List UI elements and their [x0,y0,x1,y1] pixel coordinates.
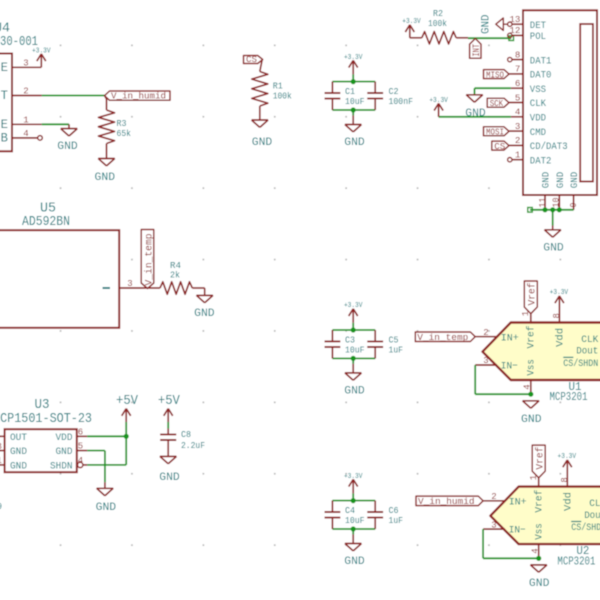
svg-text:2: 2 [483,328,488,338]
svg-text:CMD: CMD [530,127,546,139]
svg-text:9: 9 [569,203,579,208]
svg-text:CS: CS [246,54,257,65]
svg-text:Vss: Vss [526,359,538,376]
svg-text:MCP3201: MCP3201 [557,555,595,568]
svg-text:3: 3 [0,442,2,452]
svg-text:C8: C8 [181,429,191,440]
svg-text:100k: 100k [273,90,292,101]
svg-text:8: 8 [552,313,562,318]
svg-text:+3.3V: +3.3V [550,289,569,297]
svg-text:GND: GND [570,172,581,189]
svg-text:IN+: IN+ [501,332,519,344]
svg-text:OUT: OUT [10,433,27,444]
svg-text:Dout: Dout [584,510,600,522]
svg-text:U3: U3 [35,398,50,413]
svg-text:+3.3V: +3.3V [402,18,421,26]
svg-text:+3.3V: +3.3V [558,453,577,461]
svg-text:4: 4 [531,548,541,553]
svg-text:4: 4 [515,107,521,118]
svg-text:V_in_temp: V_in_temp [417,332,468,343]
svg-text:GND: GND [56,447,73,458]
svg-text:GND: GND [10,462,27,473]
svg-text:INT: INT [472,44,483,57]
svg-text:SCK: SCK [490,98,504,109]
svg-text:100k: 100k [428,18,447,29]
svg-text:GND: GND [194,308,215,320]
svg-text:GND: GND [10,447,27,458]
svg-text:VDD: VDD [530,113,546,125]
svg-text:MISO: MISO [486,69,504,80]
svg-text:+3.3V: +3.3V [32,48,51,56]
svg-text:7: 7 [515,64,521,75]
svg-text:Vref: Vref [534,490,546,513]
svg-text:Vref: Vref [526,326,538,349]
svg-text:VSS: VSS [530,84,546,96]
svg-text:B: B [1,132,9,146]
svg-text:GND: GND [57,141,78,153]
svg-text:GND: GND [159,472,180,484]
svg-text:IN−: IN− [501,361,518,373]
svg-text:+3.3V: +3.3V [344,54,363,62]
svg-text:V_in_humid: V_in_humid [418,496,475,507]
svg-text:GND: GND [521,414,542,426]
svg-text:IN+: IN+ [509,496,527,508]
svg-text:GND: GND [465,108,486,120]
svg-text:Vref: Vref [534,447,546,470]
svg-text:Dout: Dout [576,346,598,358]
svg-text:3: 3 [483,356,488,366]
svg-text:GND: GND [252,137,273,149]
svg-text:+5V: +5V [116,394,139,409]
svg-text:2k: 2k [170,270,180,281]
svg-text:V_in_temp: V_in_temp [144,234,156,286]
svg-text:Vdd: Vdd [563,492,575,511]
svg-text:DAT1: DAT1 [530,55,552,67]
svg-text:GND: GND [95,172,116,184]
svg-text:MCP1501-SOT-23: MCP1501-SOT-23 [0,412,92,427]
svg-text:GND: GND [344,137,365,149]
svg-text:100nF: 100nF [389,96,414,107]
svg-text:GND: GND [96,502,117,514]
svg-text:DET: DET [530,20,546,32]
svg-text:CLK: CLK [530,98,547,110]
svg-text:GND: GND [529,578,550,590]
svg-text:MOSI: MOSI [486,127,504,138]
svg-text:+3.3V: +3.3V [344,473,363,481]
svg-text:AD592BN: AD592BN [22,215,70,230]
svg-text:DAT2: DAT2 [530,155,552,167]
svg-text:IN−: IN− [509,525,526,537]
svg-text:+3.3V: +3.3V [429,97,448,105]
svg-text:CD/DAT3: CD/DAT3 [530,141,568,153]
svg-text:V_in_humid: V_in_humid [111,91,166,102]
svg-text:GND: GND [543,243,564,255]
svg-text:1: 1 [521,311,531,316]
svg-text:CLK: CLK [581,334,599,346]
svg-text:11: 11 [538,198,548,208]
svg-text:65k: 65k [117,128,132,139]
svg-text:1uF: 1uF [389,345,404,356]
svg-text:Vdd: Vdd [555,328,567,347]
svg-text:1: 1 [0,456,2,466]
svg-text:SHDN: SHDN [50,462,73,473]
svg-text:10: 10 [551,198,561,208]
svg-text:10uF: 10uF [345,515,365,526]
svg-text:2: 2 [491,492,496,502]
svg-text:Vref: Vref [527,283,539,306]
svg-text:VDD: VDD [56,433,73,444]
svg-text:1: 1 [529,475,539,480]
svg-text:GND: GND [481,14,493,34]
svg-text:GND: GND [556,172,567,189]
svg-text:GND: GND [344,386,365,398]
svg-text:10uF: 10uF [345,96,365,107]
svg-text:DAT0: DAT0 [530,70,552,82]
svg-text:E: E [1,118,9,132]
svg-text:8: 8 [560,477,570,482]
svg-text:CS: CS [494,141,505,152]
svg-text:T: T [1,89,9,103]
svg-text:GND: GND [344,556,365,568]
svg-text:MCP3201: MCP3201 [550,391,588,404]
svg-text:CS/SHDN: CS/SHDN [571,522,600,534]
svg-text:E: E [1,61,9,75]
svg-text:1uF: 1uF [389,515,404,526]
svg-text:Vss: Vss [534,523,546,540]
svg-text:CLK: CLK [589,498,600,510]
svg-text:3: 3 [491,520,496,530]
svg-text:12: 12 [509,25,520,36]
svg-text:+3.3V: +3.3V [344,302,363,310]
svg-text:+5V: +5V [158,394,181,409]
svg-text:10uF: 10uF [345,345,365,356]
svg-text:2.2uF: 2.2uF [181,440,205,451]
svg-text:CS/SHDN: CS/SHDN [563,358,598,370]
svg-text:C9: C9 [0,501,2,512]
svg-text:POL: POL [530,31,546,43]
svg-text:4: 4 [523,384,533,389]
svg-text:GND: GND [542,172,553,189]
